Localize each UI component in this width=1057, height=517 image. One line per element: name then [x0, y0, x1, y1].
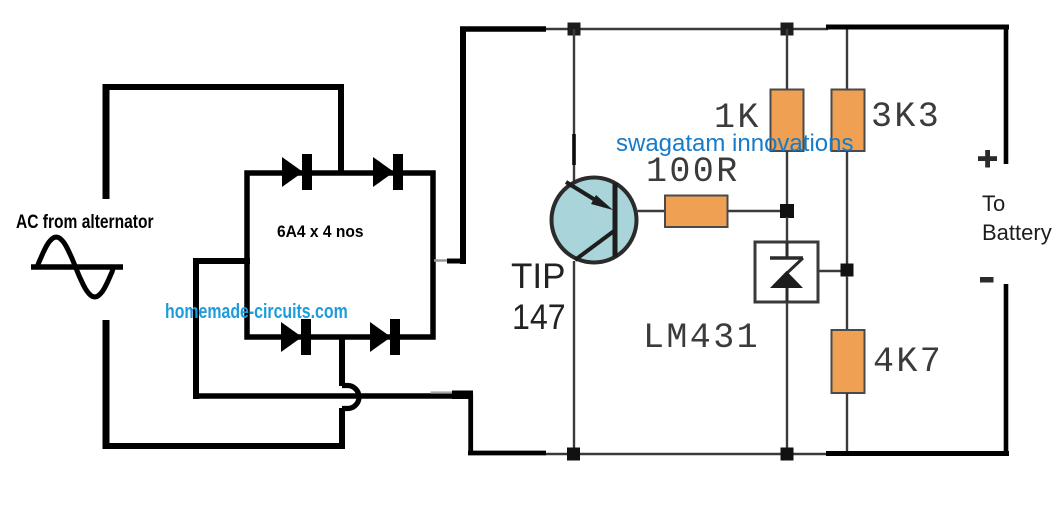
svg-text:swagatam innovations: swagatam innovations: [616, 130, 853, 157]
collector lead mark (thick segment): [572, 134, 576, 165]
node: junction top rail / 1K: [781, 23, 794, 36]
wire: top rail thin (regulator section): [546, 28, 828, 30]
label: TIP 147: [511, 257, 566, 337]
resistor 100R: [665, 196, 728, 228]
label: 1K: [714, 98, 761, 138]
node: junction 100R / 1K / LM431: [780, 204, 794, 218]
wire: bottom right thick rail from battery -: [826, 451, 1009, 456]
wire: DC- left vertical: [193, 258, 199, 399]
wire: vertical from AC bottom up to bridge (lower part below hop): [339, 408, 345, 449]
wire: 3K3 top lead: [846, 27, 848, 91]
svg-text:To: To: [982, 191, 1005, 216]
svg-text:3K3: 3K3: [871, 97, 941, 137]
wire: vertical from top wire into bridge AC input: [338, 84, 344, 173]
svg-text:147: 147: [512, 299, 566, 338]
wire: 1K top lead: [786, 29, 788, 91]
wire: DC+ gray stub from bridge right edge: [434, 259, 466, 262]
label: 4K7: [873, 342, 943, 382]
wire: AC top horizontal (left outer loop top): [103, 84, 342, 90]
wire: collector vertical from top rail to transistor: [573, 29, 575, 183]
wire: 3K3 bottom lead to divider node: [846, 151, 848, 266]
wire: node to LM431 cathode: [786, 217, 788, 243]
wire: 4K7 bottom lead to bottom rail: [846, 393, 848, 454]
diode D4 (bridge bottom-right): [370, 319, 400, 355]
label: 6A4 x 4 nos: [277, 222, 364, 241]
node: junction 3K3 / 4K7 / LM431 ref: [841, 264, 854, 277]
wire: top right thick rail to battery +: [826, 25, 1009, 30]
wire: DC- bottom horizontal (passes under hop): [193, 393, 468, 399]
wire: left outer vertical upper stub to AC source: [103, 84, 110, 199]
svg-text:6A4 x 4 nos: 6A4 x 4 nos: [277, 222, 364, 241]
shunt regulator U1 LM431: [755, 242, 818, 302]
wire: DC+ vertical up: [460, 29, 466, 264]
node: junction bottom rail / emitter: [567, 448, 580, 461]
wire: battery - vertical terminal: [1004, 284, 1009, 456]
wire: DC- to bottom rail (thick part): [468, 451, 546, 456]
wire: base to 100R: [636, 210, 667, 212]
svg-text:4K7: 4K7: [873, 342, 943, 382]
resistor 4K7: [832, 330, 865, 393]
wire: emitter vertical from transistor to bottom rail: [573, 261, 575, 454]
svg-text:LM431: LM431: [643, 318, 760, 358]
label: 3K3: [871, 97, 941, 137]
transistor Q1 TIP147: [552, 178, 637, 263]
wire: DC- corner vertical down: [468, 394, 473, 453]
diode D2 (bridge top-right): [373, 154, 403, 190]
wire: 100R to node: [728, 210, 783, 212]
label: To Battery: [982, 191, 1052, 245]
svg-text:100R: 100R: [646, 152, 740, 192]
wire: DC+ top horizontal (thick part): [460, 26, 546, 32]
node: junction top rail / collector: [568, 23, 581, 36]
wire: bottom rail thin (regulator section): [546, 453, 828, 455]
wire: left outer vertical lower stub from AC source: [103, 320, 110, 449]
label: homemade-circuits.com watermark: [165, 300, 348, 322]
label: AC from alternator: [16, 211, 154, 233]
wire: battery + vertical terminal: [1004, 27, 1009, 164]
wire: 1K bottom lead to node: [786, 151, 788, 207]
wire: gray overlap artifact above DC- corner: [431, 391, 474, 400]
svg-text:AC from alternator: AC from alternator: [16, 211, 154, 233]
wire: AC bottom horizontal to hop: [103, 443, 345, 449]
bridge rectifier box: [247, 173, 433, 337]
AC source sine symbol: [31, 237, 123, 297]
wire hop: jump over DC- wire: [342, 386, 359, 409]
node: junction bottom rail / LM431 anode: [781, 448, 794, 461]
wire: LM431 reference to divider node: [818, 270, 845, 272]
wire: LM431 anode to bottom rail: [786, 302, 788, 454]
resistor 1K: [771, 90, 804, 152]
label: LM431: [643, 318, 760, 358]
diode D3 (bridge bottom-left): [281, 319, 311, 355]
wire: DC- horizontal stub from bridge left edge: [196, 258, 250, 264]
resistor 3K3: [832, 90, 865, 152]
label: swagatam innovations watermark: [616, 130, 853, 157]
svg-text:TIP: TIP: [511, 257, 565, 296]
diode D1 (bridge top-left): [282, 154, 312, 190]
wire: 4K7 top lead: [846, 276, 848, 331]
label: 100R: [646, 152, 740, 192]
label: + terminal: [978, 150, 997, 168]
label: - terminal: [980, 277, 994, 283]
svg-text:Battery: Battery: [982, 220, 1052, 245]
svg-text:homemade-circuits.com: homemade-circuits.com: [165, 300, 348, 322]
wire: vertical from hop up to bridge bottom AC input: [339, 337, 345, 386]
